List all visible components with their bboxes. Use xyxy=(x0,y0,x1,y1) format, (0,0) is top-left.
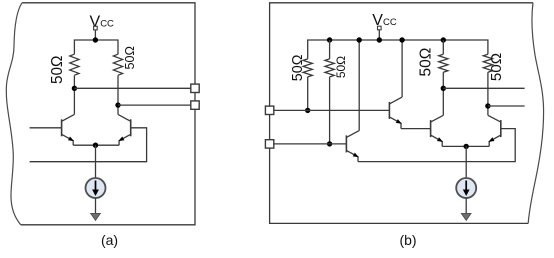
node Vcc junction (b) xyxy=(377,37,382,42)
resistor R3 50ohm (b) xyxy=(439,54,448,72)
wire I1 to ground (a) xyxy=(95,198,97,214)
svg-text:50Ω: 50Ω xyxy=(123,46,137,69)
node Q3 collector rail junction (b) xyxy=(357,37,362,42)
resistor R2 50ohm (a) xyxy=(113,54,122,75)
terminal square input 1 (b) xyxy=(265,106,273,114)
svg-text:50Ω: 50Ω xyxy=(488,53,505,81)
wire R4 bottom vertical (b) xyxy=(487,72,489,115)
node R2 output tap (a) xyxy=(115,102,120,107)
svg-text:50Ω: 50Ω xyxy=(290,54,306,81)
wire Vcc stub (a) xyxy=(94,30,96,40)
wire supply rail (b) xyxy=(308,40,488,59)
svg-text:50Ω: 50Ω xyxy=(418,48,435,77)
svg-text:CC: CC xyxy=(100,18,114,29)
wire Vcc stub (b) xyxy=(378,30,380,40)
ground (a) xyxy=(91,213,101,220)
Vcc terminal (a) xyxy=(94,26,98,30)
resistor R1 50ohm (a) xyxy=(70,54,79,75)
emitter arrow Q6 xyxy=(487,137,494,144)
wire Q1 base (a) xyxy=(30,127,62,129)
wire Q4 collector vertical (b) xyxy=(401,40,403,97)
Vcc terminal (b) xyxy=(378,26,382,30)
Vcc label (a) xyxy=(90,13,115,30)
wire output 1 (a) xyxy=(74,87,191,89)
transistor Q3 (b input follower lower) xyxy=(346,131,359,162)
terminal square output 1 (a) xyxy=(191,84,199,92)
svg-text:(b): (b) xyxy=(399,232,416,248)
node Q4 collector rail junction (b) xyxy=(399,37,404,42)
svg-text:CC: CC xyxy=(383,17,397,28)
node emitter junction (a) xyxy=(93,143,98,148)
wire R2 bottom vertical (a) xyxy=(117,75,119,114)
emitter arrow Q3 xyxy=(353,153,360,160)
wire output 2 (a) xyxy=(118,104,191,106)
wire Q4 emitter to Q5 base (b) xyxy=(401,128,431,130)
emitter arrow Q4 xyxy=(396,119,403,126)
frame (a) torn-paper border xyxy=(6,3,195,225)
wire R3 top vertical (b) xyxy=(442,40,444,54)
node R1 to input1 (b) xyxy=(305,108,310,113)
node R1 output tap (a) xyxy=(72,86,77,91)
wire I2 to ground (b) xyxy=(465,198,467,214)
current source I2 (b) xyxy=(456,178,476,198)
svg-text:(a): (a) xyxy=(101,232,118,248)
wire R1 bottom vertical (b) xyxy=(307,77,309,111)
current source I1 (a) xyxy=(86,178,106,198)
terminal square output 2 (a) xyxy=(191,101,199,109)
resistor R2 50ohm (b) xyxy=(325,59,334,77)
transistor Q6 (b diff pair right, mirrored) xyxy=(488,115,501,146)
emitter arrow Q5 xyxy=(437,137,444,144)
resistor R4 50ohm (b) xyxy=(483,54,492,72)
wire input 2 (b) xyxy=(274,143,347,145)
wire R1 bottom vertical (a) xyxy=(73,75,75,114)
node R4 output tap (b) xyxy=(485,103,490,108)
transistor Q4 (b input follower upper) xyxy=(389,97,402,129)
emitter arrow Q1 xyxy=(68,136,75,143)
node R2 top junction (b) xyxy=(327,37,332,42)
wire to current source (b) xyxy=(465,146,467,178)
wire R3 bottom vertical (b) xyxy=(442,72,444,115)
terminal square input 2 (b) xyxy=(265,140,273,148)
transistor Q2 (a right, mirrored) xyxy=(118,114,131,145)
svg-text:50Ω: 50Ω xyxy=(49,56,66,84)
wire output 2 (b) xyxy=(488,105,525,107)
frame (b) torn-paper border xyxy=(270,3,544,224)
wire to current source (a) xyxy=(95,145,97,178)
wire emitters join (a) xyxy=(73,144,119,146)
node R3 output tap (b) xyxy=(441,86,446,91)
wire Q2 base wrap (a) xyxy=(30,128,147,162)
emitter arrow Q2 xyxy=(117,136,124,143)
Vcc label (b) xyxy=(372,12,397,29)
wire supply rail (a) xyxy=(74,40,118,54)
node emitter junction (b) xyxy=(464,144,469,149)
node R2 to input2 (b) xyxy=(327,141,332,146)
node Vcc junction (a) xyxy=(93,37,98,42)
wire Q3 collector vertical (b) xyxy=(358,40,360,131)
wire Q3 emitter wrap to Q6 base (b) xyxy=(358,129,515,162)
wire emitters join (b) xyxy=(442,145,489,147)
transistor Q5 (b diff pair left) xyxy=(431,115,444,146)
ground (b) xyxy=(461,213,471,220)
wire R2 top vertical (b) xyxy=(329,40,331,59)
wire output 1 (b) xyxy=(443,87,524,89)
svg-text:50Ω: 50Ω xyxy=(334,56,348,78)
wire input 1 (b) xyxy=(274,109,390,111)
wire R2 bottom vertical (b) xyxy=(329,77,331,144)
resistor R1 50ohm (b) xyxy=(303,59,312,77)
node R3 top junction (b) xyxy=(441,37,446,42)
transistor Q1 (a left) xyxy=(62,114,75,145)
